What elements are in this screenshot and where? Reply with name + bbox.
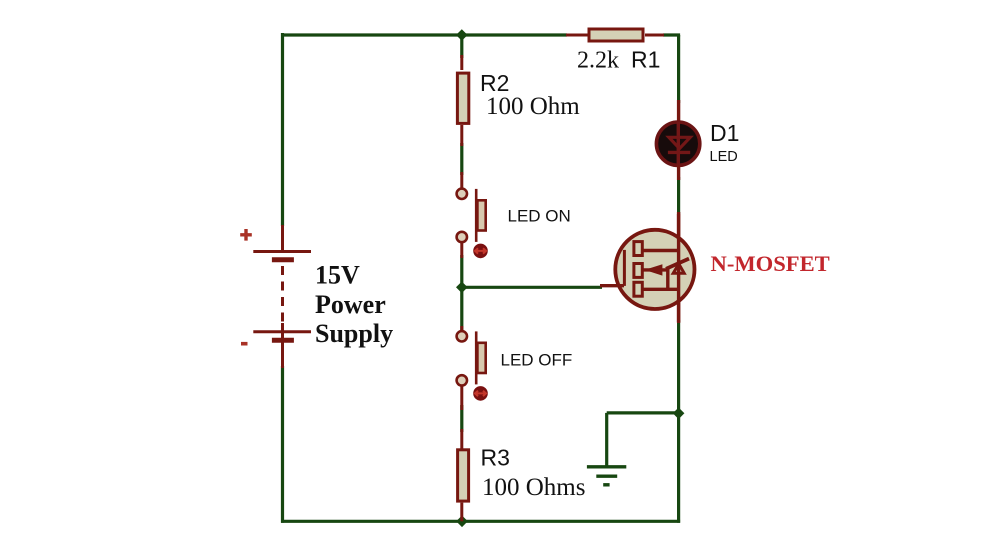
MOSFET Q1 top contact rect <box>634 242 642 256</box>
MOSFET Q1 gate lead <box>600 284 624 287</box>
wire middle column: button1 to node junction <box>460 255 463 330</box>
button SW2 pin bottom <box>460 386 463 410</box>
svg-text:LED: LED <box>710 149 738 165</box>
button SW1 pin bottom <box>460 243 463 258</box>
button SW2 terminal circle bottom <box>457 375 467 385</box>
wire right column top (to LED) <box>677 35 680 103</box>
svg-text:R3: R3 <box>481 445 510 471</box>
wire ground branch vertical <box>605 413 608 466</box>
node junction dot gate <box>456 282 468 294</box>
button SW2 pin top <box>460 326 463 331</box>
button SW1 terminal circle bottom <box>457 232 467 242</box>
MOSFET Q1 gate bar <box>623 250 626 286</box>
wire bottom horizontal <box>281 520 680 523</box>
LED D1 pin top <box>677 100 680 122</box>
wire middle column: button2 to R3 <box>460 405 463 432</box>
MOSFET Q1 internal drain-source line <box>677 214 680 322</box>
battery minus label <box>241 342 248 346</box>
resistor R3 pin bottom <box>460 503 463 522</box>
svg-text:2.2k: 2.2k <box>577 48 619 74</box>
LED D1 cathode bar <box>668 151 690 154</box>
svg-text:100 Ohm: 100 Ohm <box>486 93 580 120</box>
wire left vertical (battery column) <box>281 33 284 226</box>
resistor R2 pin top <box>460 55 463 70</box>
battery BT1 15V pin top <box>281 225 284 252</box>
MOSFET Q1 source connect line <box>642 288 678 291</box>
button SW2 plate <box>477 343 485 373</box>
LED D1 internal axis <box>677 122 680 166</box>
resistor R2 body <box>457 73 468 123</box>
LED D1 pin bottom <box>677 165 680 180</box>
MOSFET Q1 body diode diagonal <box>666 259 689 269</box>
resistor R1 body <box>589 29 643 41</box>
wire right column LED to MOSFET <box>677 177 680 214</box>
node junction dot top (R2/R1) <box>456 29 468 41</box>
MOSFET Q1 body line <box>642 268 668 271</box>
battery plate top long <box>253 250 311 253</box>
button SW2 marker <box>473 386 488 401</box>
battery plate bottom short thick <box>272 338 294 343</box>
wire top horizontal right segment after R1 <box>663 33 680 36</box>
node junction dot ground <box>673 408 685 420</box>
resistor R3 pin top <box>460 429 463 449</box>
battery crossing vertical between plates <box>281 323 284 340</box>
wire middle column: R2 to button1 <box>460 143 463 175</box>
wire ground branch horizontal <box>607 411 679 414</box>
MOSFET Q1 drain pin <box>677 212 680 238</box>
wire middle column: junction to R2 <box>460 35 463 58</box>
LED D1 body circle <box>656 122 699 165</box>
resistor R1 pin right <box>645 34 664 37</box>
battery plate bottom long <box>253 330 311 333</box>
button SW1 plate <box>477 200 485 230</box>
svg-text:LED OFF: LED OFF <box>501 351 573 370</box>
wire right column MOSFET to bottom <box>677 320 680 523</box>
battery plate top short thick <box>272 257 294 262</box>
MOSFET Q1 body circle <box>615 230 694 309</box>
button SW1 actuator bar <box>475 189 478 242</box>
battery pin bottom <box>281 340 284 368</box>
battery plus label <box>240 229 252 241</box>
button SW1 pin top <box>460 172 463 188</box>
button SW1 marker <box>473 244 488 259</box>
MOSFET Q1 drain connect line <box>642 249 678 252</box>
svg-text:LED ON: LED ON <box>508 207 571 226</box>
resistor R1 pin left <box>566 34 588 37</box>
resistor R3 body <box>458 450 469 501</box>
MOSFET Q1 source pin <box>677 302 680 323</box>
wire left vertical lower segment <box>281 366 284 523</box>
button SW2 actuator bar <box>475 331 478 384</box>
battery dashed middle <box>281 266 284 327</box>
LED D1 triangle <box>669 137 690 148</box>
svg-text:D1: D1 <box>710 120 739 146</box>
svg-text:R1: R1 <box>631 47 660 73</box>
svg-text:15V: 15V <box>315 261 360 290</box>
svg-text:Supply: Supply <box>315 319 393 348</box>
wire top horizontal left segment <box>281 33 567 36</box>
node junction dot bottom (R3) <box>456 516 468 528</box>
button SW2 terminal circle top <box>457 331 467 341</box>
MOSFET Q1 source tie bar <box>666 269 669 290</box>
ground symbol line 3 <box>603 483 609 486</box>
MOSFET Q1 body diode triangle <box>673 264 684 273</box>
ground symbol line 1 <box>587 465 626 468</box>
svg-text:N-MOSFET: N-MOSFET <box>711 251 830 276</box>
svg-text:Power: Power <box>315 290 386 319</box>
MOSFET Q1 body arrow <box>646 265 662 275</box>
svg-text:100 Ohms: 100 Ohms <box>482 474 585 501</box>
MOSFET Q1 mid contact rect <box>634 264 642 278</box>
ground symbol line 2 <box>596 475 617 478</box>
button SW1 terminal circle top <box>457 189 467 199</box>
resistor R2 pin bottom <box>460 125 463 146</box>
MOSFET Q1 bottom contact rect <box>634 282 642 296</box>
wire gate horizontal from node to MOSFET <box>462 286 602 289</box>
